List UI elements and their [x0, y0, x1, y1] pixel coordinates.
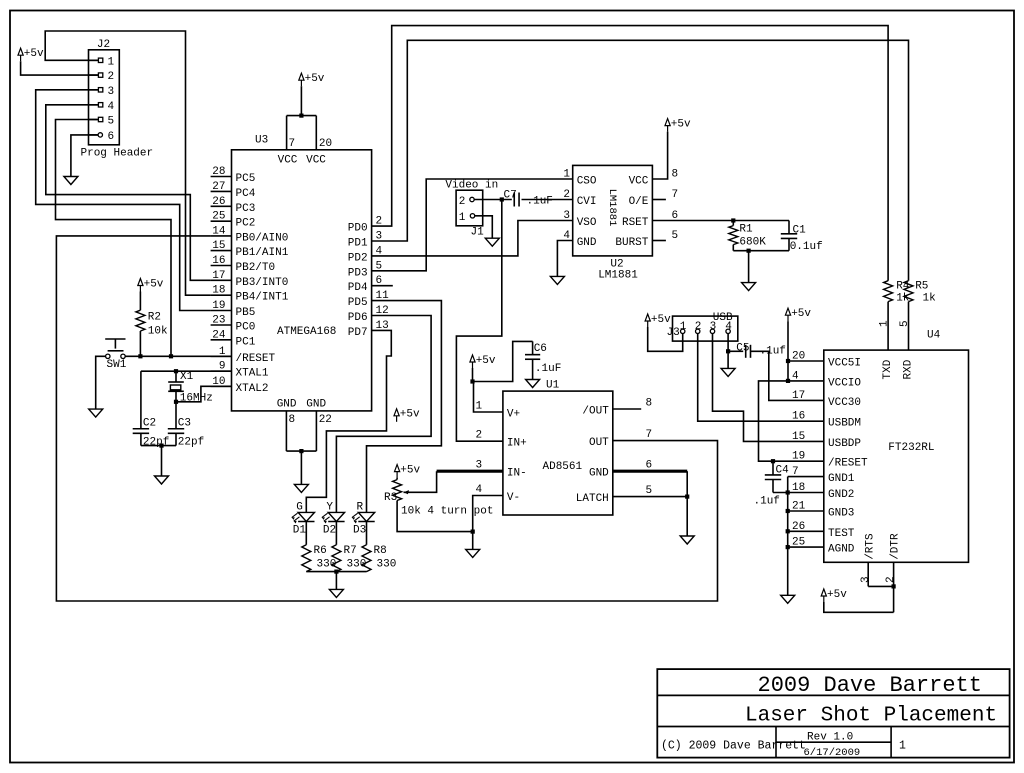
- svg-text:22pf: 22pf: [178, 437, 204, 449]
- wire GND3 stub: [788, 510, 824, 512]
- svg-text:ATMEGA168: ATMEGA168: [277, 326, 336, 338]
- title block: [657, 669, 1009, 759]
- svg-text:23: 23: [212, 315, 225, 327]
- junction LED ground: [334, 570, 338, 574]
- wire /RESET row: [125, 355, 231, 357]
- svg-text:3: 3: [563, 210, 570, 222]
- wire D3 to R8: [366, 522, 368, 545]
- IC U3 ATMEGA168: [211, 116, 393, 452]
- svg-text:GND3: GND3: [828, 508, 854, 520]
- capacitor C1: [781, 221, 823, 254]
- LED D1 (G): [292, 502, 315, 537]
- resistor R4: [884, 281, 910, 305]
- wire to ground U1: [686, 497, 688, 536]
- capacitor C7: [504, 190, 553, 208]
- wire IN- to pot wiper: [404, 471, 437, 494]
- svg-text:2: 2: [459, 196, 466, 208]
- svg-text:3: 3: [710, 321, 717, 333]
- svg-text:1: 1: [878, 320, 890, 327]
- wire TEST stub: [788, 530, 824, 532]
- svg-text:R7: R7: [344, 545, 357, 557]
- svg-text:USBDP: USBDP: [828, 438, 861, 450]
- svg-text:LM1881: LM1881: [598, 270, 638, 282]
- svg-text:+5v: +5v: [827, 589, 847, 601]
- svg-text:/RESET: /RESET: [828, 458, 868, 470]
- svg-text:16: 16: [212, 255, 225, 267]
- svg-text:3: 3: [108, 86, 115, 98]
- power +5v at J2: [18, 48, 44, 61]
- svg-text:V+: V+: [507, 409, 520, 421]
- junction VCCIO: [786, 379, 790, 383]
- wire XTAL1 row: [141, 370, 232, 372]
- svg-text:J1: J1: [471, 227, 485, 239]
- wire J2 pin3 to PB5/SCK: [36, 90, 211, 311]
- junction RSET/R1: [731, 218, 735, 222]
- svg-text:C4: C4: [776, 465, 790, 477]
- svg-text:2: 2: [476, 430, 483, 442]
- svg-text:.1uf: .1uf: [754, 496, 780, 508]
- svg-text:G: G: [296, 502, 303, 514]
- svg-text:16: 16: [792, 411, 805, 423]
- svg-text:VCC30: VCC30: [828, 397, 861, 409]
- wire C7 to CVI: [522, 199, 573, 201]
- junction J3.4/C5: [726, 349, 730, 353]
- IC U1 AD8561: [476, 379, 653, 515]
- svg-text:7: 7: [289, 138, 296, 150]
- resistor R1: [729, 221, 766, 251]
- svg-text:4: 4: [476, 484, 483, 496]
- svg-text:CVI: CVI: [577, 196, 597, 208]
- svg-text:8: 8: [646, 398, 653, 410]
- junction TEST rail: [786, 529, 790, 533]
- svg-text:/RTS: /RTS: [864, 533, 876, 560]
- svg-text:LM1881: LM1881: [606, 189, 618, 227]
- svg-text:7: 7: [646, 429, 653, 441]
- svg-text:1: 1: [459, 212, 466, 224]
- wire PD1 to R5/RXD: [372, 40, 909, 280]
- ground at J3: [721, 368, 735, 376]
- svg-text:22pf: 22pf: [143, 437, 169, 449]
- svg-text:6/17/2009: 6/17/2009: [804, 747, 861, 759]
- wire video tap to IN+: [456, 200, 503, 442]
- wire C5 to VCC30: [751, 351, 824, 400]
- svg-text:+5v: +5v: [651, 314, 671, 326]
- svg-text:R1: R1: [739, 224, 753, 236]
- svg-text:RSET: RSET: [622, 217, 649, 229]
- svg-text:C2: C2: [143, 418, 156, 430]
- svg-text:1: 1: [899, 740, 906, 753]
- svg-text:19: 19: [212, 300, 225, 312]
- svg-text:D2: D2: [323, 525, 336, 537]
- svg-text:C6: C6: [534, 343, 547, 355]
- svg-text:1: 1: [108, 56, 115, 68]
- junction R1C1 ground: [747, 249, 751, 253]
- wire +5v to J2 pin2: [21, 61, 99, 75]
- svg-text:PC0: PC0: [236, 322, 256, 334]
- capacitor C2: [133, 371, 170, 448]
- wire J2 pin4 to PB3/MOSI: [46, 105, 211, 280]
- svg-text:PD1: PD1: [348, 238, 368, 250]
- svg-text:CSO: CSO: [577, 176, 597, 188]
- svg-text:R8: R8: [374, 545, 387, 557]
- svg-text:PB1/AIN1: PB1/AIN1: [236, 247, 289, 259]
- wire R4 to TXD pin1: [878, 302, 890, 351]
- ground at R3/V-: [466, 549, 480, 557]
- svg-text:8: 8: [289, 414, 296, 426]
- wire J3 pin3 to USBDP: [713, 334, 824, 442]
- svg-text:R5: R5: [915, 281, 928, 293]
- wire J2 pin5 to /RESET: [56, 120, 172, 357]
- LED D3 (R): [352, 502, 375, 537]
- ground at R1C1: [742, 283, 756, 291]
- svg-text:Rev 1.0: Rev 1.0: [807, 732, 853, 744]
- svg-text:18: 18: [212, 285, 225, 297]
- svg-text:O/E: O/E: [629, 196, 649, 208]
- svg-text:OUT: OUT: [589, 437, 609, 449]
- wire OUT to PB0 loop: [56, 236, 717, 601]
- svg-text:PD7: PD7: [348, 327, 368, 339]
- power +5v at /DTR: [821, 589, 847, 602]
- power +5v at U2 VCC: [665, 118, 691, 131]
- svg-text:XTAL2: XTAL2: [236, 383, 269, 395]
- connector J1 Video in: [445, 180, 498, 239]
- svg-text:PD5: PD5: [348, 297, 368, 309]
- svg-text:17: 17: [212, 270, 225, 282]
- wire U2 GND to ground: [557, 241, 572, 277]
- svg-text:U4: U4: [927, 330, 941, 342]
- svg-text:.1uF: .1uF: [527, 196, 553, 208]
- svg-text:LATCH: LATCH: [576, 493, 609, 505]
- wire GND to LATCH join: [686, 471, 688, 496]
- ground at U4: [781, 595, 795, 603]
- svg-text:GND2: GND2: [828, 489, 854, 501]
- svg-text:SW1: SW1: [107, 359, 127, 371]
- junction video tap: [500, 197, 504, 201]
- svg-text:+5v: +5v: [144, 278, 164, 290]
- wire U1 GND thick: [613, 470, 687, 473]
- svg-text:5: 5: [672, 230, 679, 242]
- svg-text:8: 8: [672, 169, 679, 181]
- wire +5v to VCC5I VCCIO: [788, 321, 824, 381]
- wire J3 pin4 to C5: [728, 334, 743, 369]
- svg-text:C3: C3: [178, 418, 191, 430]
- capacitor C6: [525, 341, 561, 379]
- wire C4 to GND2: [773, 492, 824, 494]
- svg-text:2: 2: [563, 189, 570, 201]
- svg-text:28: 28: [212, 166, 225, 178]
- svg-text:PC1: PC1: [236, 336, 256, 348]
- ground at J2 pin6: [64, 177, 78, 185]
- junction R2//RESET: [138, 354, 142, 358]
- svg-text:VCC: VCC: [629, 176, 649, 188]
- resistor R6: [302, 545, 337, 572]
- wire AGND stub: [788, 546, 824, 548]
- svg-text:C1: C1: [793, 225, 807, 237]
- svg-text:V-: V-: [507, 492, 520, 504]
- svg-text:17: 17: [792, 390, 805, 402]
- wire PD3 to CSO: [372, 179, 573, 271]
- svg-text:PC3: PC3: [236, 203, 256, 215]
- power +5v at R2: [138, 278, 164, 291]
- svg-text:PB4/INT1: PB4/INT1: [236, 292, 289, 304]
- svg-text:(C) 2009 Dave Barrett: (C) 2009 Dave Barrett: [661, 740, 806, 753]
- wire PD0 to R4/TXD: [372, 26, 889, 281]
- svg-text:4: 4: [108, 101, 115, 113]
- stub U2 BURST pin5: [652, 240, 666, 242]
- junction AGND rail: [786, 545, 790, 549]
- IC U4 FT232RL: [792, 330, 969, 563]
- svg-text:Prog Header: Prog Header: [81, 148, 154, 160]
- svg-text:4: 4: [725, 321, 732, 333]
- wire +5v to VCC bridge: [300, 86, 302, 115]
- junction V-/R3/ground: [471, 530, 475, 534]
- svg-text:5: 5: [899, 320, 911, 327]
- svg-text:X1: X1: [180, 371, 194, 383]
- svg-text:TEST: TEST: [828, 528, 855, 540]
- wire J1.2 to C7: [474, 199, 512, 201]
- svg-text:+5v: +5v: [400, 409, 420, 421]
- junction J2.5//RESET: [169, 354, 173, 358]
- svg-text:GND: GND: [277, 399, 297, 411]
- ground at J1: [485, 238, 499, 246]
- wire +5v to R3: [396, 478, 398, 480]
- junction +5v/V+/C6: [470, 379, 474, 383]
- svg-text:U3: U3: [255, 135, 268, 147]
- svg-text:+5v: +5v: [24, 48, 44, 60]
- svg-text:U1: U1: [546, 379, 560, 391]
- wire /RTS to /DTR: [868, 585, 893, 587]
- svg-text:3: 3: [860, 576, 872, 583]
- svg-text:C7: C7: [504, 190, 517, 202]
- svg-text:2: 2: [695, 321, 702, 333]
- wire U2 VCC to +5v: [652, 132, 667, 179]
- wire J2 pin6 to ground: [71, 135, 99, 177]
- wire U3 GND join: [286, 451, 316, 484]
- wire +5v to /DTR: [824, 602, 894, 612]
- svg-text:Video in: Video in: [445, 180, 498, 192]
- connector J3 USB: [667, 312, 738, 341]
- IC U2 LM1881: [563, 165, 678, 281]
- svg-text:PC2: PC2: [236, 218, 256, 230]
- ground at SW1: [89, 409, 103, 417]
- svg-text:+5v: +5v: [791, 308, 811, 320]
- ground at U2: [550, 276, 564, 284]
- svg-text:D1: D1: [293, 525, 307, 537]
- ground at LEDs: [329, 589, 343, 597]
- svg-text:J3: J3: [667, 327, 680, 339]
- svg-text:VCC5I: VCC5I: [828, 358, 861, 370]
- junction C2C3 ground: [159, 444, 163, 448]
- junction /RTS//DTR: [892, 584, 896, 588]
- resistor R7: [332, 545, 366, 572]
- junction GND/LATCH: [685, 495, 689, 499]
- svg-text:26: 26: [212, 196, 225, 208]
- svg-text:AGND: AGND: [828, 544, 855, 556]
- svg-text:PC5: PC5: [236, 173, 256, 185]
- power +5v at R3: [395, 464, 421, 477]
- svg-text:PC4: PC4: [236, 188, 256, 200]
- svg-text:/RESET: /RESET: [236, 353, 276, 365]
- svg-text:R3: R3: [384, 492, 397, 504]
- junction VCC bridge: [299, 114, 303, 118]
- svg-text:330: 330: [377, 559, 397, 571]
- svg-text:+5v: +5v: [476, 355, 496, 367]
- LED D2 (Y): [322, 502, 345, 537]
- wire R5 to RXD pin5: [899, 302, 911, 351]
- wire PD5 to D3: [367, 301, 442, 513]
- svg-text:VCC: VCC: [278, 155, 298, 167]
- svg-text:+5v: +5v: [671, 118, 691, 130]
- wire J2 pin1 to PB4/MISO: [45, 31, 210, 295]
- svg-text:J2: J2: [97, 39, 110, 51]
- capacitor C4: [754, 461, 790, 507]
- potentiometer R3: [384, 480, 493, 518]
- svg-text:PD0: PD0: [348, 223, 368, 235]
- svg-text:2: 2: [885, 576, 897, 583]
- wire R3 to V- join: [397, 501, 473, 532]
- wire V- down: [473, 496, 503, 532]
- ground at U1: [680, 536, 694, 544]
- svg-text:.1uF: .1uF: [535, 363, 561, 375]
- resistor R2: [136, 310, 168, 337]
- wire VCCIO to /RESET: [759, 381, 824, 461]
- svg-text:15: 15: [212, 240, 225, 252]
- svg-text:+5v: +5v: [305, 73, 325, 85]
- stub U1 /OUT pin8: [613, 408, 641, 410]
- switch SW1: [105, 339, 127, 371]
- capacitor C5: [736, 343, 786, 358]
- svg-text:XTAL1: XTAL1: [236, 368, 269, 380]
- svg-text:5: 5: [646, 485, 653, 497]
- svg-text:25: 25: [212, 211, 225, 223]
- stub U2 O/E pin7: [652, 199, 666, 201]
- junction XTAL1/X1: [174, 369, 178, 373]
- power +5v floating near D2 wire: [394, 409, 420, 422]
- wire R2 to /RESET: [139, 331, 141, 356]
- svg-text:FT232RL: FT232RL: [888, 442, 934, 454]
- svg-text:Laser Shot Placement: Laser Shot Placement: [745, 705, 997, 728]
- svg-text:2: 2: [108, 71, 115, 83]
- svg-text:10k 4 turn pot: 10k 4 turn pot: [401, 506, 493, 518]
- svg-text:20: 20: [319, 138, 332, 150]
- wire +5v to J3 pin1: [648, 327, 683, 351]
- svg-text:RXD: RXD: [903, 359, 915, 379]
- wire C2 C3 join: [141, 446, 176, 476]
- wire J1.1 to ground: [475, 216, 493, 238]
- wire +5v to V+ and C6: [473, 341, 533, 412]
- svg-text:R2: R2: [148, 312, 161, 324]
- svg-text:R6: R6: [314, 545, 327, 557]
- wire J3 pin2 to USBDM: [698, 334, 824, 422]
- capacitor C3: [168, 402, 204, 449]
- wire LED resistors join: [306, 572, 366, 590]
- svg-text:1: 1: [563, 169, 570, 181]
- svg-text:PD4: PD4: [348, 282, 368, 294]
- ground at U3 GND: [294, 484, 308, 492]
- power +5v at U4: [785, 308, 811, 321]
- svg-text:27: 27: [212, 181, 225, 193]
- wire D1 to R6: [305, 522, 307, 545]
- svg-text:U2: U2: [610, 259, 623, 271]
- junction VCC5I: [786, 359, 790, 363]
- wire IN- thick: [437, 470, 503, 473]
- svg-text:14: 14: [212, 225, 226, 237]
- svg-text:D3: D3: [353, 525, 366, 537]
- svg-text:IN-: IN-: [507, 468, 527, 480]
- svg-text:PD2: PD2: [348, 252, 368, 264]
- svg-text:C5: C5: [736, 343, 749, 355]
- svg-text:PD3: PD3: [348, 267, 368, 279]
- junction U3 GND: [299, 449, 303, 453]
- junction GND2 rail: [786, 490, 790, 494]
- svg-text:R: R: [357, 502, 364, 514]
- svg-text:15: 15: [792, 431, 805, 443]
- svg-text:PD6: PD6: [348, 312, 368, 324]
- svg-text:USBDM: USBDM: [828, 418, 861, 430]
- power +5v at U3 VCC: [299, 73, 325, 86]
- resistor R5: [904, 281, 936, 305]
- junction /RESET/C4: [771, 459, 775, 463]
- svg-text:/OUT: /OUT: [582, 406, 609, 418]
- wire RSET to R1 C1: [652, 220, 789, 222]
- wire join to ground: [472, 532, 474, 550]
- power +5v at U1 V+: [470, 355, 496, 368]
- wire PD6 to D2: [336, 316, 431, 513]
- svg-text:0.1uf: 0.1uf: [790, 241, 823, 253]
- wire +5v to R2: [139, 292, 141, 311]
- svg-text:22: 22: [319, 414, 332, 426]
- junction X1 bottom: [174, 400, 178, 404]
- wire LATCH: [613, 496, 687, 498]
- svg-text:VCCIO: VCCIO: [828, 377, 861, 389]
- wire GND1 rail: [788, 477, 824, 596]
- svg-text:GND: GND: [306, 399, 326, 411]
- wire SW1 to ground: [96, 356, 106, 409]
- svg-text:16MHz: 16MHz: [180, 393, 213, 405]
- svg-text:GND1: GND1: [828, 473, 855, 485]
- svg-text:PB5: PB5: [236, 307, 256, 319]
- wire /RTS pin3: [860, 562, 872, 586]
- svg-text:Y: Y: [326, 502, 333, 514]
- svg-text:6: 6: [108, 131, 115, 143]
- svg-text:BURST: BURST: [615, 237, 648, 249]
- svg-text:680K: 680K: [739, 237, 766, 249]
- svg-text:+5v: +5v: [400, 464, 420, 476]
- svg-text:/DTR: /DTR: [890, 533, 902, 560]
- ground at C2C3: [155, 476, 169, 484]
- resistor R8: [362, 545, 396, 572]
- wire /DTR pin2: [885, 562, 897, 612]
- svg-text:5: 5: [108, 116, 115, 128]
- svg-text:AD8561: AD8561: [543, 461, 583, 473]
- svg-text:VCC: VCC: [306, 155, 326, 167]
- svg-text:GND: GND: [577, 237, 597, 249]
- svg-text:IN+: IN+: [507, 438, 527, 450]
- ground at C6: [526, 380, 540, 388]
- svg-text:1: 1: [476, 401, 483, 413]
- svg-text:24: 24: [212, 329, 226, 341]
- junction GND3 rail: [786, 509, 790, 513]
- svg-text:1: 1: [680, 321, 687, 333]
- svg-text:VSO: VSO: [577, 217, 597, 229]
- svg-text:2009 Dave Barrett: 2009 Dave Barrett: [758, 673, 982, 698]
- wire XTAL2 to X1 bottom: [176, 386, 232, 402]
- svg-text:PB3/INT0: PB3/INT0: [236, 277, 289, 289]
- connector J2 Prog Header: [81, 39, 154, 160]
- crystal X1: [168, 371, 213, 405]
- svg-text:1k: 1k: [923, 293, 937, 305]
- wire D2 to R7: [335, 522, 337, 545]
